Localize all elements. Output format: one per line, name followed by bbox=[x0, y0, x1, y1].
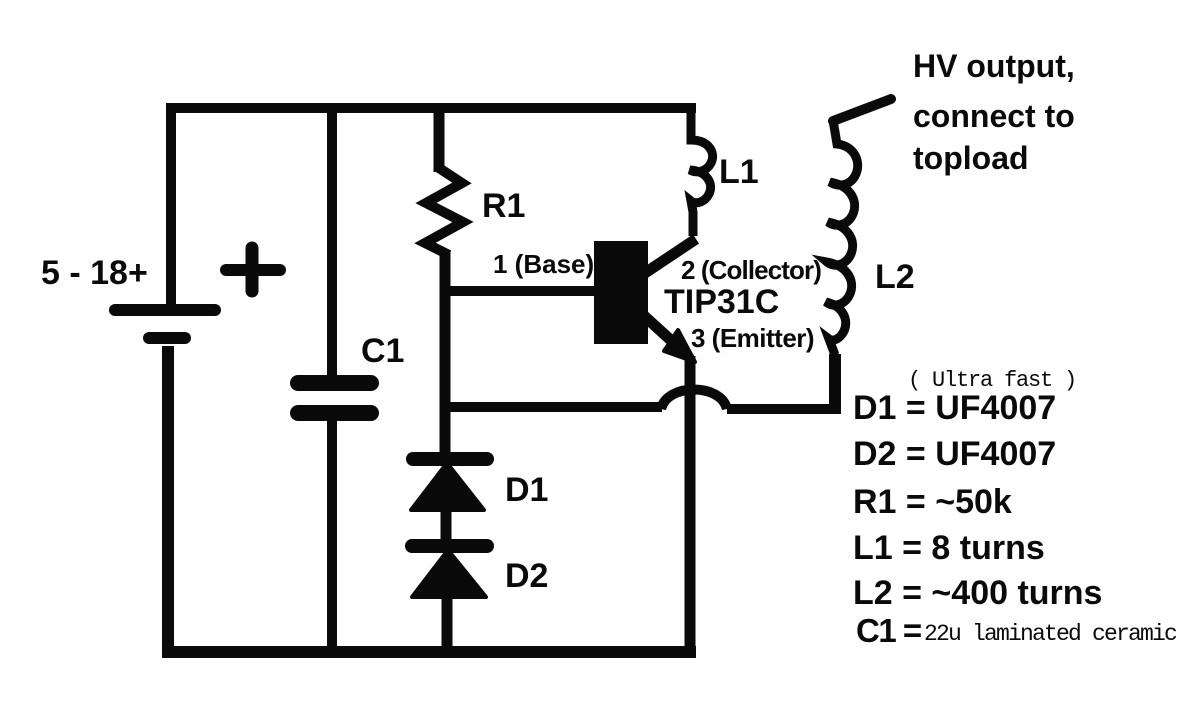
svg-text:connect to: connect to bbox=[913, 98, 1075, 134]
wire battery positive lead bbox=[166, 104, 176, 304]
wire battery negative lead bbox=[162, 346, 174, 652]
wire base bbox=[444, 286, 596, 296]
plus sign polarity mark bbox=[226, 248, 280, 291]
svg-text:D2 = UF4007: D2 = UF4007 bbox=[853, 435, 1056, 473]
svg-text:L1: L1 bbox=[719, 153, 759, 191]
wire HV output lead bbox=[833, 99, 891, 121]
inductor L2 bbox=[826, 120, 858, 355]
wire mid bus left segment bbox=[445, 402, 662, 412]
diode D2 cathode bar bbox=[412, 539, 487, 553]
svg-text:22u laminated ceramic: 22u laminated ceramic bbox=[924, 621, 1177, 647]
svg-text:D1 = UF4007: D1 = UF4007 bbox=[853, 389, 1056, 427]
svg-text:2 (Collector): 2 (Collector) bbox=[681, 255, 821, 285]
wire R1 branch top bbox=[434, 104, 445, 172]
capacitor C1 top plate bbox=[298, 375, 371, 391]
svg-text:R1 = ~50k: R1 = ~50k bbox=[853, 483, 1012, 521]
wire R1 bottom to base junction and diode branch bbox=[440, 252, 451, 456]
diode D1 triangle bbox=[411, 463, 484, 510]
battery B1 short plate bbox=[149, 332, 185, 344]
resistor R1 bbox=[425, 168, 463, 255]
svg-text:D2: D2 bbox=[505, 557, 548, 595]
svg-text:D1: D1 bbox=[505, 471, 548, 509]
wire C1 branch top bbox=[327, 108, 337, 375]
svg-text:L1 = 8 turns: L1 = 8 turns bbox=[853, 529, 1045, 567]
svg-text:R1: R1 bbox=[482, 187, 525, 225]
wire bottom bus bbox=[162, 646, 696, 658]
wire hop over emitter wire bbox=[661, 390, 727, 410]
svg-text:3 (Emitter): 3 (Emitter) bbox=[691, 323, 814, 353]
wire emitter bbox=[641, 313, 686, 354]
svg-text:topload: topload bbox=[913, 140, 1029, 176]
capacitor C1 bottom plate bbox=[298, 405, 371, 421]
svg-text:HV output,: HV output, bbox=[913, 48, 1075, 84]
svg-text:1 (Base): 1 (Base) bbox=[493, 249, 594, 279]
wire mid bus right segment bbox=[727, 404, 840, 414]
wire top bus bbox=[166, 103, 696, 113]
wire between D1 and D2 bbox=[441, 510, 452, 540]
svg-text:C1: C1 bbox=[361, 332, 404, 370]
wire L2 bottom lead bbox=[829, 354, 841, 414]
emitter arrowhead bbox=[664, 330, 695, 362]
wire emitter to bottom bus bbox=[685, 356, 696, 652]
diode D1 cathode bar bbox=[413, 452, 487, 466]
svg-text:C1 =: C1 = bbox=[856, 612, 921, 649]
svg-text:TIP31C: TIP31C bbox=[664, 283, 779, 321]
wire collector bbox=[642, 239, 696, 275]
battery B1 long plate bbox=[115, 304, 215, 316]
transistor Q1 TIP31C body bbox=[594, 241, 648, 344]
svg-text:L2 = ~400 turns: L2 = ~400 turns bbox=[853, 574, 1102, 612]
wire D2 to bottom bus bbox=[442, 597, 453, 652]
inductor L1 bbox=[690, 108, 713, 236]
svg-text:5 - 18+: 5 - 18+ bbox=[41, 254, 148, 292]
svg-text:L2: L2 bbox=[875, 258, 915, 296]
wire C1 branch bottom bbox=[327, 421, 337, 652]
diode D2 triangle bbox=[412, 550, 486, 597]
